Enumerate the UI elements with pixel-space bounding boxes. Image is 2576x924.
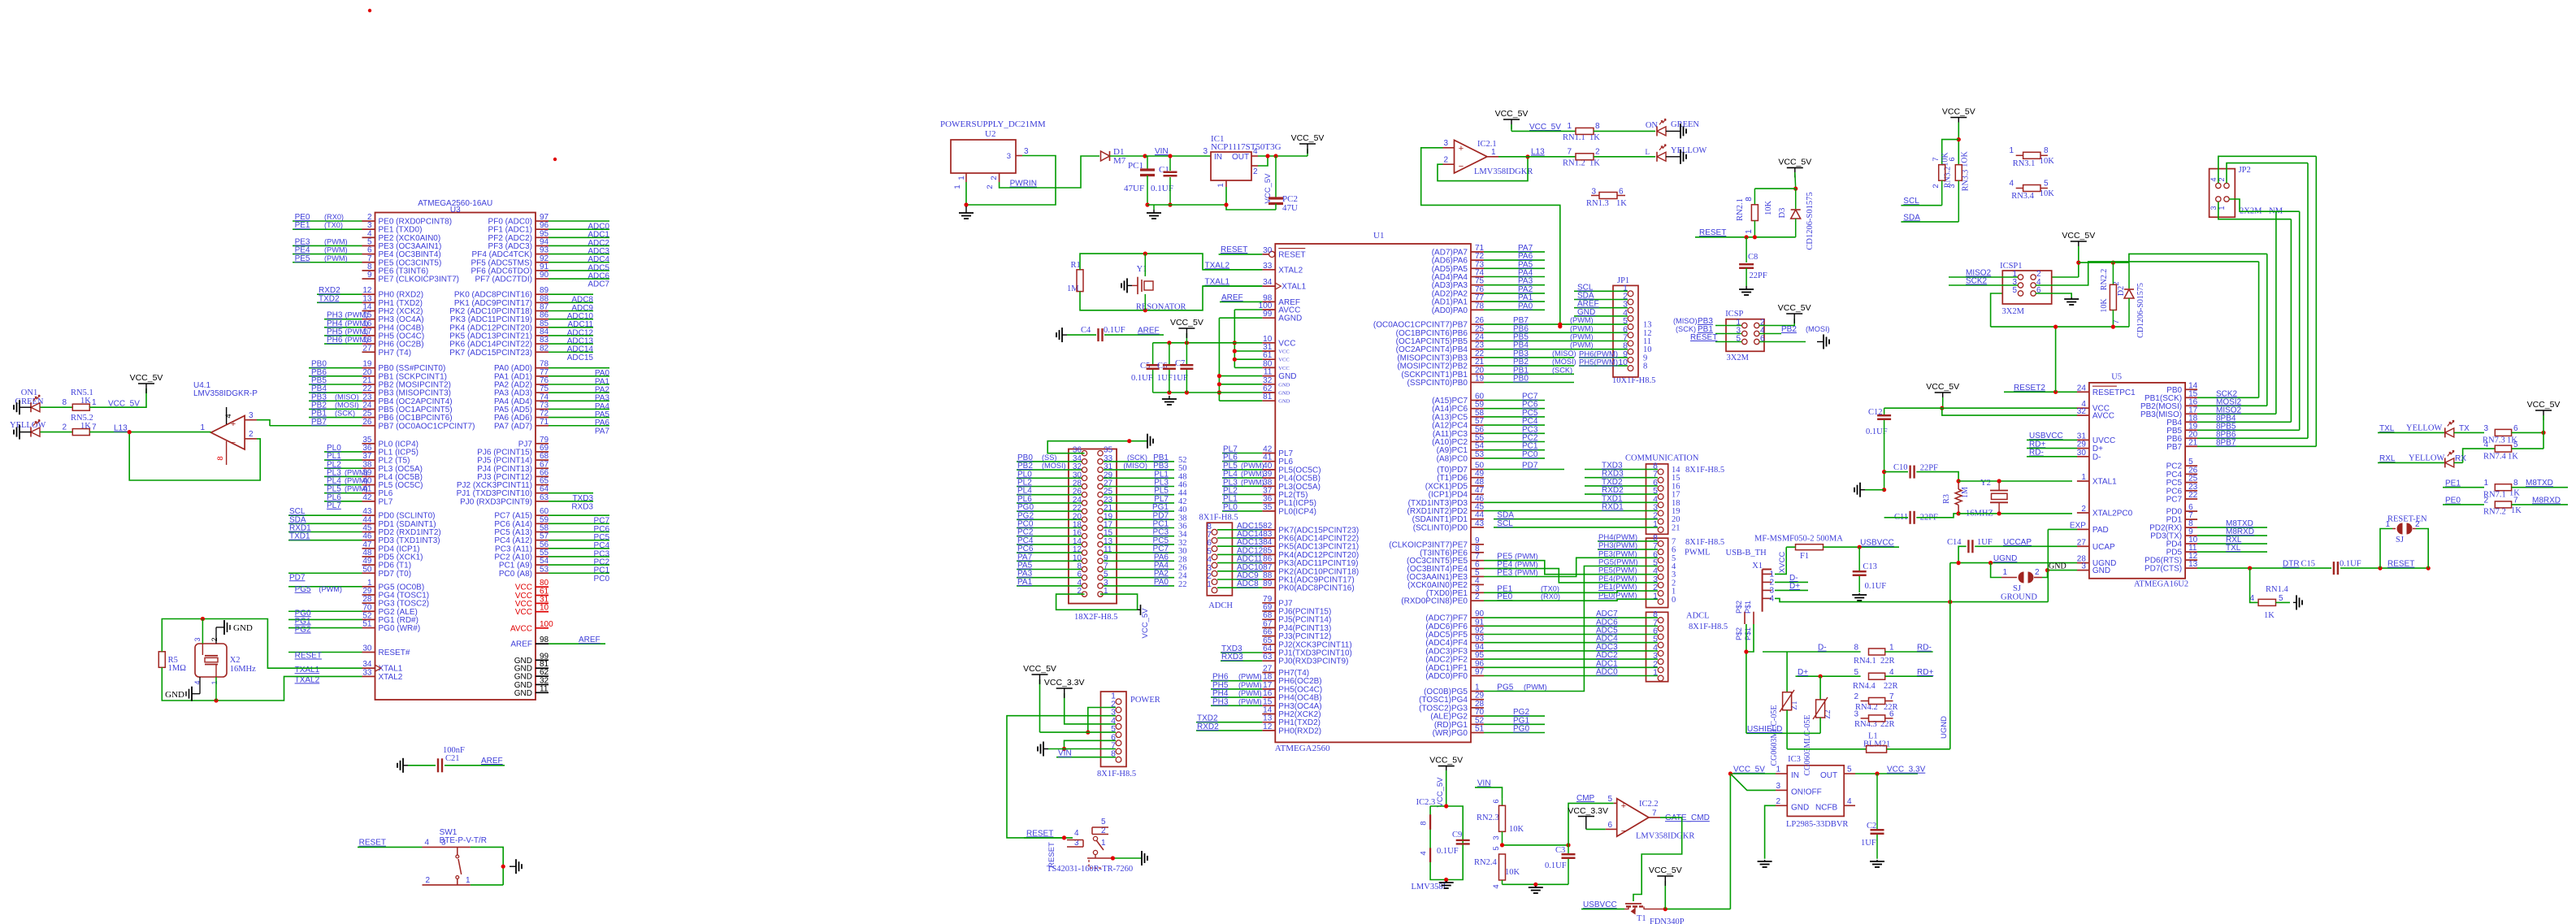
svg-text:1: 1 xyxy=(1491,148,1496,157)
wire RESET2 net xyxy=(2004,327,2077,394)
svg-text:PWRIN: PWRIN xyxy=(1010,180,1037,189)
svg-text:(MISO): (MISO) xyxy=(1552,349,1576,358)
svg-text:(TX0): (TX0) xyxy=(1541,584,1559,592)
svg-text:1K: 1K xyxy=(2508,453,2518,462)
wire MISO2 to ICSP1 xyxy=(1949,269,2018,278)
svg-text:2: 2 xyxy=(1776,797,1780,806)
LED L YELLOW xyxy=(1646,145,1707,162)
svg-text:U1: U1 xyxy=(1373,231,1384,241)
wire 18X2F pin2 pin1 to VCC_5V xyxy=(1056,594,1150,638)
svg-text:1: 1 xyxy=(1889,644,1894,653)
resistor R3 1M xyxy=(1942,479,1970,515)
svg-text:XTAL1: XTAL1 xyxy=(1281,283,1306,292)
wire U1 XTAL2 xyxy=(1203,261,1262,270)
svg-text:−: − xyxy=(231,438,236,448)
wire RESET net at RN2.1 xyxy=(1695,228,1796,239)
ground at U2 xyxy=(965,206,967,213)
svg-text:10K: 10K xyxy=(2100,298,2109,313)
wire VCC_5V into IC3 xyxy=(1728,766,1776,791)
switch SW1 BTE-P-V-T/R xyxy=(358,828,503,885)
svg-text:SJ: SJ xyxy=(2013,584,2021,593)
svg-text:(PWM): (PWM) xyxy=(1515,553,1538,561)
svg-text:24: 24 xyxy=(2077,384,2087,393)
svg-text:1: 1 xyxy=(210,680,219,684)
svg-text:RN1.4: RN1.4 xyxy=(2266,585,2288,594)
svg-text:51: 51 xyxy=(1475,725,1485,734)
svg-text:+: + xyxy=(1459,144,1464,154)
wire POWER VIN xyxy=(1056,749,1116,758)
svg-text:RESET: RESET xyxy=(2387,560,2414,569)
svg-text:2: 2 xyxy=(990,176,999,180)
wire ICSP1 MOSI riser xyxy=(2036,262,2259,285)
svg-text:4: 4 xyxy=(1889,668,1894,677)
IC U1 ATMEGA2560 xyxy=(1259,231,1485,753)
svg-text:PB7 (OC0AOC1CPCINT7): PB7 (OC0AOC1CPCINT7) xyxy=(379,422,475,431)
resistor RN2.4 10K xyxy=(1474,846,1520,888)
wire USBVCC to VCC_5V rail xyxy=(1663,774,1731,911)
op-amp IC2.1 LMV358IDGKR xyxy=(1443,139,1533,176)
svg-text:(PWM): (PWM) xyxy=(345,485,368,493)
svg-text:4: 4 xyxy=(1769,594,1774,603)
capacitor C21 100nF xyxy=(408,746,505,772)
svg-text:TS42031-160R-TR-7260: TS42031-160R-TR-7260 xyxy=(1047,865,1133,874)
svg-text:8: 8 xyxy=(2513,479,2518,488)
svg-text:3: 3 xyxy=(193,637,202,641)
capacitor C1 0.1UF xyxy=(1151,154,1177,206)
power VCC_5V at IC2.3 xyxy=(1429,756,1463,808)
wire U1 PA nets xyxy=(1484,244,1545,310)
svg-text:PG2: PG2 xyxy=(295,626,311,635)
svg-text:XTAL2: XTAL2 xyxy=(1278,266,1303,275)
capacitor C8 22PF xyxy=(1739,237,1767,286)
wire SCK2 to ICSP1 xyxy=(1949,277,2018,286)
resistor RN1.3 1K xyxy=(1586,188,1627,209)
wire power ground rail xyxy=(1147,202,1229,210)
svg-text:PH5(PWM): PH5(PWM) xyxy=(1579,358,1618,367)
svg-text:8: 8 xyxy=(2044,146,2049,155)
wire PWML PH4 PH3 stubs xyxy=(1598,533,1658,600)
wire DTR net xyxy=(2197,560,2331,570)
svg-text:1UF: 1UF xyxy=(1173,374,1188,383)
svg-text:VCC_5V: VCC_5V xyxy=(2062,231,2095,241)
svg-text:6: 6 xyxy=(1889,710,1894,719)
svg-text:22: 22 xyxy=(2188,491,2198,500)
svg-text:(PWM): (PWM) xyxy=(1515,569,1538,577)
svg-text:3: 3 xyxy=(1776,782,1780,791)
wire op-amp U4.1 output to PB7 xyxy=(257,420,270,426)
svg-text:AVCC: AVCC xyxy=(510,624,532,633)
svg-text:RESET: RESET xyxy=(1278,250,1305,259)
svg-text:PE5: PE5 xyxy=(295,254,310,263)
svg-text:(SCLINT0)PD0: (SCLINT0)PD0 xyxy=(1413,523,1468,532)
wire POWER 5V xyxy=(1040,679,1117,732)
svg-text:2: 2 xyxy=(425,876,430,885)
solder jumper RESET-EN xyxy=(2380,515,2428,569)
svg-text:(MOSI): (MOSI) xyxy=(1552,358,1576,366)
svg-text:VCC_5V: VCC_5V xyxy=(1778,303,1811,313)
wire 18X2F pin36 to ground xyxy=(1047,439,1147,453)
svg-text:(PWM): (PWM) xyxy=(1570,341,1594,349)
svg-text:RN7.4: RN7.4 xyxy=(2483,453,2506,462)
svg-text:VCC_5V: VCC_5V xyxy=(1529,123,1561,132)
svg-text:YELLOW: YELLOW xyxy=(2406,424,2442,433)
svg-text:VCC_5V: VCC_5V xyxy=(1926,382,1959,392)
svg-text:ADC8: ADC8 xyxy=(1237,579,1259,588)
svg-text:DTR: DTR xyxy=(2283,560,2300,569)
svg-text:3X2M: 3X2M xyxy=(2002,307,2025,316)
wire MISO2 riser xyxy=(2275,211,2277,213)
svg-text:8X1F-H8.5: 8X1F-H8.5 xyxy=(1685,538,1724,547)
wire PWRIN net xyxy=(1000,156,1099,189)
connector JP1 10X1F-H8.5 xyxy=(1612,276,1655,385)
svg-text:4: 4 xyxy=(2009,179,2014,188)
svg-text:MF-MSMF050-2 500MA: MF-MSMF050-2 500MA xyxy=(1754,535,1843,544)
svg-text:CD1206-S01575: CD1206-S01575 xyxy=(1806,192,1815,249)
svg-text:USBVCC: USBVCC xyxy=(1860,539,1894,548)
svg-text:11: 11 xyxy=(540,684,549,693)
svg-text:8: 8 xyxy=(62,398,67,407)
svg-text:U5: U5 xyxy=(2111,373,2122,382)
capacitor C3 0.1UF xyxy=(1545,845,1576,884)
svg-text:ADCL: ADCL xyxy=(1686,612,1710,621)
ground at Y1 xyxy=(1127,284,1132,286)
svg-text:6: 6 xyxy=(1492,799,1501,803)
wire U1 PH pins xyxy=(1196,673,1262,731)
svg-text:PA7 (AD7): PA7 (AD7) xyxy=(494,422,532,431)
svg-text:(PWM): (PWM) xyxy=(324,254,348,262)
wire USHIELD xyxy=(1746,725,1820,734)
svg-text:2: 2 xyxy=(2081,505,2086,514)
svg-text:2: 2 xyxy=(1475,592,1480,601)
svg-text:RESET: RESET xyxy=(359,839,386,848)
svg-text:SJ: SJ xyxy=(2396,536,2404,544)
svg-text:L13: L13 xyxy=(1531,148,1545,157)
svg-text:3: 3 xyxy=(1948,184,1957,188)
wire PE5 to PWML xyxy=(1484,553,1658,575)
svg-text:−: − xyxy=(1621,826,1626,836)
ground at IC2.3 xyxy=(1446,881,1447,883)
svg-text:PE1: PE1 xyxy=(2445,479,2461,488)
wire GATE_CMD xyxy=(1633,813,1710,901)
svg-text:3: 3 xyxy=(2210,206,2218,210)
wire U1 PB3-PB0 stubs xyxy=(1484,349,1576,384)
svg-text:BTE-P-V-T/R: BTE-P-V-T/R xyxy=(440,836,487,845)
svg-text:ON1: ON1 xyxy=(21,388,37,397)
svg-text:GND: GND xyxy=(1278,372,1296,381)
svg-text:XVCC: XVCC xyxy=(1778,552,1787,574)
wire RESET2 rail xyxy=(1991,293,2129,329)
svg-text:42: 42 xyxy=(362,493,372,502)
svg-text:6: 6 xyxy=(1607,821,1612,830)
wire PE0 to PWML xyxy=(1484,592,1658,601)
svg-text:0.1UF: 0.1UF xyxy=(1865,582,1887,591)
ground symbol at Y2 xyxy=(1860,489,1865,491)
svg-text:ON: ON xyxy=(1646,121,1659,130)
svg-text:8X1F-H8.5: 8X1F-H8.5 xyxy=(1199,514,1238,523)
svg-text:(SCK): (SCK) xyxy=(335,410,355,418)
wire ICSP RESET xyxy=(1690,333,1741,342)
svg-text:(AD0)PA0: (AD0)PA0 xyxy=(1432,306,1468,315)
svg-text:2: 2 xyxy=(1932,184,1941,188)
svg-text:1UF: 1UF xyxy=(1861,839,1876,848)
svg-text:VCC_5V: VCC_5V xyxy=(130,373,163,383)
IC U5 ATMEGA16U2 xyxy=(2070,373,2198,589)
svg-text:GND: GND xyxy=(2092,566,2110,575)
svg-text:TXD1: TXD1 xyxy=(289,532,310,541)
svg-text:3: 3 xyxy=(1024,147,1029,156)
svg-text:VCC: VCC xyxy=(515,608,532,617)
svg-text:PK7 (ADC15PCINT23): PK7 (ADC15PCINT23) xyxy=(449,349,532,358)
op-amp IC2.2 LMV358IDGKR xyxy=(1606,795,1695,841)
svg-text:TXAL2: TXAL2 xyxy=(1205,261,1230,270)
svg-text:1: 1 xyxy=(466,876,471,885)
svg-text:98: 98 xyxy=(540,636,549,644)
svg-text:(SCK): (SCK) xyxy=(1127,453,1147,462)
svg-text:(PWM): (PWM) xyxy=(1570,333,1594,341)
resistor RN7.1 1K xyxy=(2443,479,2568,499)
wire USB shield xyxy=(1744,624,1754,733)
svg-text:PE7 (CLKOICP3INT7): PE7 (CLKOICP3INT7) xyxy=(379,275,459,284)
svg-text:1: 1 xyxy=(1207,579,1212,589)
svg-text:R1: R1 xyxy=(1071,261,1081,270)
svg-text:RESONATOR: RESONATOR xyxy=(1136,303,1186,312)
svg-text:PB7: PB7 xyxy=(311,418,327,427)
svg-text:IC2.2: IC2.2 xyxy=(1639,800,1659,809)
svg-text:(SCK): (SCK) xyxy=(1676,325,1696,333)
svg-text:10K: 10K xyxy=(1509,825,1524,834)
ground at C21 xyxy=(403,765,408,766)
svg-text:RN4.1: RN4.1 xyxy=(1854,657,1876,666)
power VCC_5V at RN1.1 xyxy=(1495,109,1529,131)
ground at RN1.4 xyxy=(2293,601,2296,603)
svg-text:1: 1 xyxy=(953,184,962,189)
svg-text:C8: C8 xyxy=(1748,253,1758,262)
svg-text:D2: D2 xyxy=(2117,286,2126,296)
svg-text:33: 33 xyxy=(362,668,372,677)
svg-text:LMV358I: LMV358I xyxy=(1412,883,1446,891)
svg-text:VCC_5V: VCC_5V xyxy=(1942,107,1975,117)
ground at IC3 xyxy=(1764,860,1766,861)
wire U2 pin3 to ground rail xyxy=(964,156,1056,207)
svg-text:(PWM): (PWM) xyxy=(1238,681,1262,689)
svg-text:RXL: RXL xyxy=(2379,454,2396,463)
svg-text:(PWM): (PWM) xyxy=(345,477,368,485)
svg-text:PD7: PD7 xyxy=(289,573,306,582)
ground at divider xyxy=(1535,886,1537,887)
wire USB GND to EXP net xyxy=(1775,598,2048,604)
resistor RN7.2 1K xyxy=(2443,496,2568,516)
wire ICSP1 GND xyxy=(2036,293,2071,297)
svg-text:VCC: VCC xyxy=(1278,358,1289,363)
fuse F1 MF-MSMF050-2 500MA xyxy=(1754,535,1899,562)
varistor Z2 CG0603MLC-05E xyxy=(1803,676,1832,775)
svg-text:RN2.3: RN2.3 xyxy=(1477,813,1499,822)
svg-text:ADCH: ADCH xyxy=(1208,601,1233,610)
svg-text:AGND: AGND xyxy=(1278,315,1302,323)
IC U3 ATMEGA2560-16AU xyxy=(270,199,609,700)
svg-text:PWML: PWML xyxy=(1685,549,1711,557)
svg-text:12: 12 xyxy=(1263,722,1273,731)
svg-text:2: 2 xyxy=(2483,496,2488,505)
svg-text:(PWM): (PWM) xyxy=(1241,470,1264,478)
svg-text:1M: 1M xyxy=(1961,487,1970,498)
wire ICSP GND xyxy=(1759,341,1806,343)
svg-text:T1: T1 xyxy=(1637,914,1646,923)
svg-text:IN: IN xyxy=(1791,771,1799,780)
svg-text:(PWM): (PWM) xyxy=(1241,462,1264,470)
svg-text:CD1206-S01575: CD1206-S01575 xyxy=(2136,283,2145,338)
svg-text:1K: 1K xyxy=(2511,506,2522,515)
capacitor C7 1UF xyxy=(1173,343,1193,393)
svg-text:(SSPCINT0)PB0: (SSPCINT0)PB0 xyxy=(1407,379,1468,388)
wire COMMUNICATION serial nets xyxy=(1484,462,1658,528)
svg-text:(PWM): (PWM) xyxy=(319,585,342,593)
svg-text:GND: GND xyxy=(1278,399,1290,405)
svg-text:4: 4 xyxy=(1492,884,1501,888)
svg-text:RESET: RESET xyxy=(1221,245,1247,254)
svg-text:PL0(ICP4): PL0(ICP4) xyxy=(1278,507,1316,516)
diode D2 CD1206-S01575 xyxy=(2117,262,2145,338)
wire JP1 PH6 PH5 xyxy=(1579,349,1628,367)
svg-text:L: L xyxy=(1646,148,1650,156)
wire IC3 GND xyxy=(1765,805,1776,859)
svg-text:13: 13 xyxy=(2188,560,2198,569)
ground at U1 bypass rail xyxy=(1169,396,1170,399)
svg-text:35: 35 xyxy=(1263,503,1273,512)
wire USB VBUS to fuse xyxy=(1775,547,1786,574)
switch RESET TS42031-160R-TR-7260 xyxy=(1024,818,1133,874)
svg-text:UCCAP: UCCAP xyxy=(2003,538,2032,547)
svg-text:0.1UF: 0.1UF xyxy=(1437,847,1459,856)
node L13 xyxy=(114,424,211,435)
ground at C12 xyxy=(1865,489,1884,491)
svg-text:(RX0): (RX0) xyxy=(1541,592,1560,601)
svg-text:SCK2: SCK2 xyxy=(1966,277,1988,286)
wire IC2.1 feedback xyxy=(1438,154,1530,180)
svg-text:VCC_3.3V: VCC_3.3V xyxy=(1568,806,1608,816)
svg-text:1: 1 xyxy=(1745,229,1754,234)
svg-text:22R: 22R xyxy=(1880,657,1895,666)
svg-text:PB7: PB7 xyxy=(2166,443,2182,452)
svg-text:71: 71 xyxy=(540,418,549,427)
svg-text:22PF: 22PF xyxy=(1750,271,1767,280)
connector U2 POWERSUPPLY_DC21MM xyxy=(940,119,1046,189)
svg-text:8: 8 xyxy=(1420,821,1429,825)
svg-text:0.1UF: 0.1UF xyxy=(1104,326,1125,335)
wire UGND row xyxy=(1950,554,2077,565)
svg-text:VCC_5V: VCC_5V xyxy=(1733,766,1765,774)
svg-text:1: 1 xyxy=(1567,122,1572,131)
svg-text:90: 90 xyxy=(540,271,549,280)
wire U1 PB7-PB4 to JP1 xyxy=(1484,316,1628,350)
power VCC_5V at U5 xyxy=(1926,382,1959,410)
wire ICSP MOSI PB2 xyxy=(1759,325,1830,334)
svg-text:P$2: P$2 xyxy=(1735,627,1743,640)
svg-text:30: 30 xyxy=(362,644,372,653)
svg-text:IC3: IC3 xyxy=(1788,755,1801,764)
svg-text:RESET: RESET xyxy=(1026,829,1053,838)
LED TX YELLOW xyxy=(2378,420,2484,437)
svg-text:5: 5 xyxy=(1847,766,1852,774)
svg-text:8X1F-H8.5: 8X1F-H8.5 xyxy=(1685,466,1724,475)
wire EXP to USB ground xyxy=(2048,529,2077,601)
svg-text:10K: 10K xyxy=(2040,157,2055,166)
svg-text:9: 9 xyxy=(367,271,372,280)
svg-text:6: 6 xyxy=(2513,424,2518,433)
power VCC_5V at RN7 xyxy=(2527,400,2561,449)
svg-text:30: 30 xyxy=(2077,449,2087,458)
svg-text:RXD1: RXD1 xyxy=(1602,503,1624,512)
capacitor C4 0.1UF AREF xyxy=(1067,326,1164,341)
svg-text:RXD3: RXD3 xyxy=(571,502,593,511)
regulator IC3 LP2985-33DBVR xyxy=(1776,755,1855,829)
svg-text:C7: C7 xyxy=(1175,359,1185,368)
power VCC_3.3V at IC2.2 xyxy=(1568,806,1608,829)
svg-text:(PWM): (PWM) xyxy=(1238,689,1262,697)
svg-text:NCFB: NCFB xyxy=(1815,803,1838,812)
resistor RN3.1 10K xyxy=(2009,146,2054,168)
svg-text:USB-B_TH: USB-B_TH xyxy=(1726,549,1767,557)
svg-text:VCC_5V: VCC_5V xyxy=(1495,109,1529,119)
svg-text:VCC: VCC xyxy=(1278,349,1289,355)
capacitor C12 0.1UF xyxy=(1866,408,1891,492)
svg-text:OUT: OUT xyxy=(1820,771,1837,780)
svg-text:SCL: SCL xyxy=(1903,197,1919,206)
svg-text:26: 26 xyxy=(362,418,372,427)
svg-text:(WR)PG0: (WR)PG0 xyxy=(1433,729,1468,738)
wire U1 AREF xyxy=(1220,293,1262,302)
diode D1 M7 xyxy=(1101,147,1146,166)
resistor RN1.4 1K xyxy=(2249,568,2290,620)
svg-text:TXAL1: TXAL1 xyxy=(1205,278,1230,287)
wire VCC_5V rail to U1 VCC xyxy=(1153,333,1263,345)
svg-text:C13: C13 xyxy=(1863,562,1877,571)
stray marks xyxy=(368,9,557,161)
capacitor C13 0.1UF xyxy=(1853,547,1887,592)
svg-text:PD7: PD7 xyxy=(1522,462,1538,471)
op-amp IC2.3 power pins xyxy=(1412,798,1464,891)
svg-text:X2: X2 xyxy=(230,656,241,665)
svg-text:M8TXD: M8TXD xyxy=(2526,479,2553,488)
resonator X2 16MHz xyxy=(193,619,256,701)
wire IC1 OUT to VCC_5V xyxy=(1258,149,1308,166)
svg-text:F1: F1 xyxy=(1800,552,1809,561)
svg-text:53: 53 xyxy=(1475,450,1485,459)
resistor RN1.1 1K xyxy=(1563,122,1655,142)
wire PE1 to PWML xyxy=(1484,584,1658,593)
svg-text:PF7 (ADC7TDI): PF7 (ADC7TDI) xyxy=(475,275,532,284)
svg-text:33: 33 xyxy=(1263,262,1273,271)
svg-text:ATMEGA16U2: ATMEGA16U2 xyxy=(2134,580,2188,589)
svg-text:1: 1 xyxy=(1216,183,1225,187)
svg-text:(PWM): (PWM) xyxy=(345,319,369,328)
svg-text:53: 53 xyxy=(540,565,549,574)
svg-text:6: 6 xyxy=(1948,157,1957,161)
svg-text:(PWM): (PWM) xyxy=(324,246,348,254)
connector ADCH 8X1F-H8.5 xyxy=(1199,514,1264,611)
wire ground rail at U1 xyxy=(1153,390,1263,394)
svg-text:D-: D- xyxy=(1818,644,1827,653)
svg-text:PA0: PA0 xyxy=(1154,578,1169,587)
wire SCK2 MOSI2 MISO2 8PB4-8PB7 xyxy=(2197,156,2316,447)
wire RD- to U5 xyxy=(2027,449,2077,458)
svg-text:UGND: UGND xyxy=(1993,554,2017,563)
svg-text:PD7 (T0): PD7 (T0) xyxy=(379,570,412,579)
svg-text:VCC_5V: VCC_5V xyxy=(1170,318,1203,328)
resistor RN4.3 22R xyxy=(1854,710,1894,729)
svg-text:RESET: RESET xyxy=(1690,333,1717,342)
svg-text:34: 34 xyxy=(1263,278,1273,287)
